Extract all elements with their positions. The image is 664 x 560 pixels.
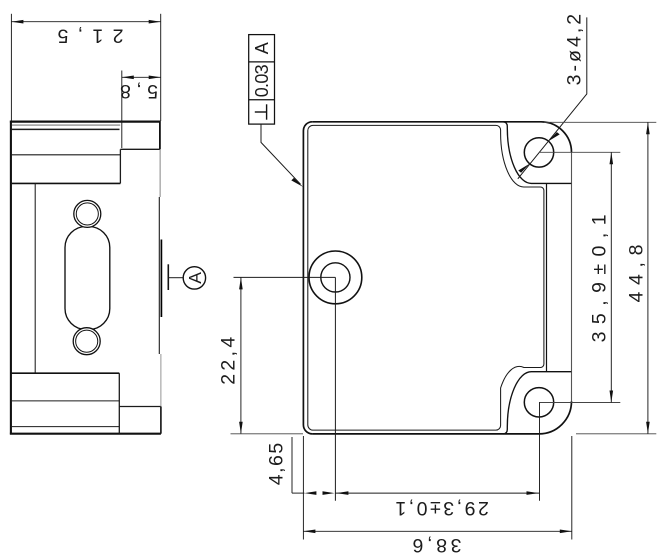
side view outline left edge bbox=[10, 121, 12, 435]
center hole extension line down bbox=[334, 277, 336, 500]
center hole inner circle bbox=[321, 263, 350, 292]
front view outer top edge and top-right ear arc bbox=[312, 122, 571, 153]
dimension 35,9 bottom arrow bbox=[610, 391, 614, 403]
dimension 22,4 bottom arrow bbox=[239, 422, 243, 434]
dimension 4,65 right arrow bbox=[323, 491, 335, 495]
extension line top hole right bbox=[539, 151, 620, 153]
svg-text:4,65: 4,65 bbox=[265, 443, 287, 486]
dimension 5,8 line bbox=[122, 76, 161, 78]
svg-text:38,6: 38,6 bbox=[413, 534, 462, 556]
svg-text:21,5: 21,5 bbox=[57, 25, 123, 47]
svg-text:29,3±0,1: 29,3±0,1 bbox=[395, 497, 489, 519]
hole label 3-o4,2 leader bbox=[518, 17, 587, 178]
feature control frame divider 2 bbox=[249, 99, 275, 101]
svg-text:0.03: 0.03 bbox=[252, 64, 272, 97]
extension line bottom edge right bbox=[576, 433, 656, 435]
center hole outer circle bbox=[309, 251, 362, 304]
dimension 35,9 line bbox=[610, 152, 612, 402]
svg-text:35,9±0,1: 35,9±0,1 bbox=[589, 214, 611, 342]
perpendicularity symbol base bbox=[266, 104, 268, 119]
dimension 21,5 left arrow bbox=[11, 20, 23, 24]
svg-text:3-ø4,2: 3-ø4,2 bbox=[563, 14, 585, 86]
front view recess edge vertical bbox=[546, 183, 548, 371]
side view right edge of top flange bbox=[159, 121, 161, 150]
top right hole bbox=[524, 138, 553, 167]
side view silhouette line lower bbox=[160, 354, 162, 407]
connector top screw inner circle bbox=[76, 203, 98, 225]
extension line top edge right bbox=[544, 121, 656, 123]
dimension 5,8 left arrow bbox=[122, 76, 134, 80]
front view right silhouette line between ears bbox=[571, 152, 573, 401]
dimension 21,5 line bbox=[11, 21, 160, 23]
dimension 21,5 right arrow bbox=[149, 20, 161, 24]
side view bottom edge bbox=[10, 433, 161, 435]
svg-text:22,4: 22,4 bbox=[217, 337, 239, 385]
datum A leader tick bbox=[168, 277, 183, 279]
svg-text:44,8: 44,8 bbox=[625, 245, 647, 303]
feature control frame leader bbox=[261, 124, 301, 184]
side view line y373 bbox=[11, 372, 120, 374]
dimension 5,8 right arrow bbox=[149, 76, 161, 80]
side view inner line y155 bbox=[12, 154, 121, 156]
dimension 21,5 right extension line bbox=[160, 14, 162, 121]
side view top edge bbox=[10, 120, 160, 122]
bottom right hole bbox=[524, 388, 553, 417]
side view raised face line bbox=[158, 197, 160, 354]
side view step line y149 bbox=[120, 148, 159, 150]
front view outer neck curve bottom bbox=[503, 372, 571, 434]
side view edge x119 lower bbox=[118, 373, 120, 434]
side view silhouette line upper bbox=[159, 149, 161, 197]
connector top screw outer circle bbox=[74, 200, 101, 227]
dimension 29,3 right arrow bbox=[527, 491, 539, 495]
extension line bottom hole right bbox=[539, 402, 620, 404]
datum A surface bar bbox=[167, 264, 169, 290]
dimension 29,3 left arrow bbox=[336, 491, 348, 495]
side view line y401 bbox=[11, 400, 120, 402]
side view line y427 bbox=[11, 426, 120, 428]
front view outer neck curve top bbox=[503, 122, 571, 184]
dimension 4,65 leader vertical bbox=[291, 437, 293, 493]
side view step edge x120 upper bbox=[119, 149, 121, 183]
dimension 44,8 top arrow bbox=[646, 122, 650, 134]
dimension 5,8 extension line bbox=[121, 71, 123, 149]
center hole extension line left bbox=[234, 276, 336, 278]
dimension 4,65 leader stub bbox=[292, 492, 304, 494]
front view outer bottom edge and bottom-right ear arc bbox=[312, 401, 571, 434]
side view inner vertical x35 bbox=[34, 183, 36, 373]
front view inner step contour bbox=[308, 125, 544, 430]
dimension 38,6 right extension line bbox=[571, 436, 573, 540]
dimension 4,65 left arrow bbox=[304, 491, 316, 495]
dimension 21,5 left extension line bbox=[10, 14, 12, 121]
side view line y183 bbox=[12, 182, 121, 184]
bottom right hole extension line down bbox=[539, 402, 541, 501]
dimension 22,4 top arrow bbox=[239, 277, 243, 289]
side view inner line y125 bbox=[12, 124, 120, 126]
dimension 35,9 top arrow bbox=[610, 152, 614, 164]
hole label lower arrow bbox=[518, 164, 529, 173]
perpendicularity symbol stem bbox=[255, 111, 267, 113]
connector bottom screw inner circle bbox=[76, 330, 98, 352]
dimension 44,8 line bbox=[647, 122, 649, 434]
dimension 38,6 line bbox=[303, 530, 571, 532]
dimension 29,3 line bbox=[335, 492, 539, 494]
front view outer left side bbox=[303, 122, 312, 434]
side view right edge lower block bbox=[160, 407, 162, 434]
feature control frame box bbox=[249, 35, 275, 125]
svg-text:A: A bbox=[252, 42, 272, 54]
side view raised face bar bbox=[160, 240, 162, 318]
hole label upper arrow bbox=[548, 132, 559, 141]
feature control frame leader arrow bbox=[291, 178, 303, 187]
dimension 22,4 line bbox=[240, 277, 242, 433]
extension line bottom edge left of plate bbox=[231, 433, 304, 435]
datum A circle bbox=[183, 267, 205, 289]
connector shell stadium bbox=[65, 227, 110, 330]
dimension 38,6 right arrow bbox=[560, 530, 572, 534]
side view step line y406 bbox=[119, 406, 161, 408]
svg-text:A: A bbox=[185, 272, 205, 284]
dimension 38,6 left arrow bbox=[303, 530, 315, 534]
dimension 44,8 bottom arrow bbox=[646, 422, 650, 434]
dimension 38,6 left extension line bbox=[302, 436, 304, 540]
connector bottom screw outer circle bbox=[73, 328, 100, 355]
feature control frame divider 1 bbox=[249, 61, 275, 63]
side view inner line y129 bbox=[12, 128, 120, 130]
svg-text:5,8: 5,8 bbox=[120, 80, 158, 102]
